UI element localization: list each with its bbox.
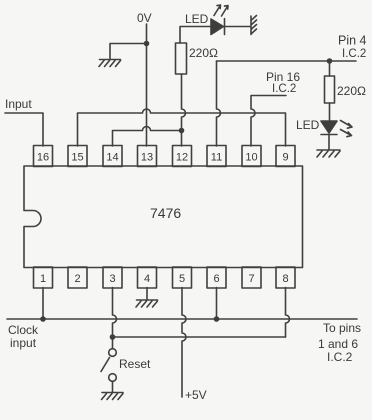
- svg-text:I.C.2: I.C.2: [342, 48, 366, 60]
- switch S1 reset: [101, 349, 116, 382]
- label Reset: [119, 357, 151, 371]
- svg-text:4: 4: [144, 273, 150, 285]
- pin 3: [103, 267, 122, 288]
- svg-text:input: input: [10, 336, 37, 350]
- svg-text:Pin 16: Pin 16: [266, 70, 300, 84]
- pin 16: [34, 146, 53, 167]
- pin 15: [68, 146, 87, 167]
- wire pin 5 to +5V: [182, 288, 186, 398]
- pin 4: [138, 267, 157, 288]
- wire input to pin 16: [5, 113, 43, 146]
- node reset junction: [110, 334, 116, 340]
- svg-text:2: 2: [74, 273, 80, 285]
- label To pins 1 and 6 I.C.2: [318, 321, 361, 364]
- svg-text:11: 11: [211, 152, 222, 164]
- wire pin4 IC2 rail: [217, 60, 357, 62]
- wire pin16 IC2 to pin 10: [251, 96, 286, 147]
- label +5V: [185, 388, 207, 402]
- node pin4 rail junction: [327, 58, 333, 64]
- node pin6 clock junction: [214, 316, 220, 322]
- svg-text:6: 6: [213, 273, 219, 285]
- wire bus D reset to pin 8: [113, 336, 286, 338]
- svg-text:5: 5: [179, 273, 185, 285]
- label Pin 4 I.C.2: [338, 34, 367, 61]
- svg-text:Pin 4: Pin 4: [338, 34, 367, 48]
- LED D2: [321, 121, 337, 135]
- pin 1: [34, 267, 53, 288]
- svg-text:0V: 0V: [137, 11, 152, 25]
- svg-text:Clock: Clock: [8, 323, 39, 337]
- svg-text:220Ω: 220Ω: [337, 84, 366, 98]
- wire junction to R2: [329, 61, 331, 76]
- wire R2 to LED D2: [329, 103, 331, 121]
- label Clock input: [8, 323, 39, 350]
- pin 13: [138, 146, 157, 167]
- label R1 value 220 ohm: [189, 46, 218, 60]
- wire switch to ground: [112, 381, 114, 392]
- ground G4: [136, 300, 158, 307]
- wire D2 cathode to ground: [328, 135, 330, 150]
- svg-text:7476: 7476: [150, 205, 181, 221]
- wire bus B pin 14 to pin 12: [113, 127, 182, 147]
- resistor R2 220 ohm: [325, 76, 335, 103]
- svg-text:8: 8: [282, 273, 288, 285]
- wire 0V vertical to pin 13: [146, 24, 148, 146]
- wire pin 4 to ground: [146, 288, 148, 300]
- label U1 value 7476: [150, 205, 181, 221]
- node pin1 clock junction: [40, 316, 46, 322]
- node 0V junction: [144, 41, 150, 47]
- IC U1 body 7476: [24, 166, 303, 268]
- svg-text:Input: Input: [5, 97, 32, 111]
- pin 7: [242, 267, 261, 288]
- svg-text:14: 14: [106, 152, 118, 164]
- svg-text:220Ω: 220Ω: [189, 46, 218, 60]
- svg-text:15: 15: [71, 152, 83, 164]
- LED D1 light arrows: [214, 5, 228, 16]
- svg-text:LED: LED: [185, 12, 209, 26]
- svg-text:1: 1: [40, 273, 46, 285]
- label LED D1: [185, 12, 209, 26]
- wire 0V to ground: [110, 44, 147, 59]
- svg-text:16: 16: [37, 152, 49, 164]
- pin 5: [173, 267, 192, 288]
- svg-text:10: 10: [245, 152, 257, 164]
- pin 12: [173, 146, 192, 167]
- svg-text:Reset: Reset: [119, 357, 151, 371]
- label Pin 16 I.C.2: [266, 70, 300, 95]
- svg-text:1 and 6: 1 and 6: [318, 337, 358, 351]
- pin 2: [68, 267, 87, 288]
- wire clock bus C: [7, 318, 357, 320]
- wire R1 bottom to pin 12: [182, 74, 186, 146]
- svg-text:I.C.2: I.C.2: [272, 83, 296, 95]
- label 0V: [137, 11, 152, 25]
- wire rail down to pin 11: [217, 61, 221, 146]
- label LED D2: [296, 118, 320, 132]
- pin 9: [276, 146, 295, 167]
- pin 8: [276, 267, 295, 288]
- svg-text:13: 13: [141, 152, 153, 164]
- svg-text:LED: LED: [296, 118, 320, 132]
- node bus B junction: [179, 128, 185, 134]
- pin 6: [207, 267, 226, 288]
- svg-text:+5V: +5V: [185, 388, 207, 402]
- wire pin 1 to bus C: [42, 288, 44, 320]
- pin 14: [103, 146, 122, 167]
- pin 10: [242, 146, 261, 167]
- wire pin 6 to bus C: [216, 288, 218, 320]
- resistor R1 220 ohm: [176, 43, 187, 74]
- wire R1 top to LED D1 anode: [180, 27, 211, 44]
- ground G5: [102, 393, 124, 400]
- LED D1: [211, 19, 225, 35]
- LED D2 light arrows: [341, 121, 353, 137]
- wire D1 cathode to chassis: [225, 26, 251, 28]
- chassis ground G2: [251, 16, 257, 35]
- svg-text:7: 7: [248, 273, 254, 285]
- wire bus A pin 15 to pin 9: [78, 109, 286, 146]
- ground G3: [317, 150, 340, 157]
- svg-text:To pins: To pins: [323, 321, 361, 335]
- svg-text:3: 3: [109, 273, 115, 285]
- ground G1: [99, 60, 121, 67]
- label R2 value 220 ohm: [337, 84, 366, 98]
- label Input: [5, 97, 32, 111]
- wire pin 3 to reset switch: [113, 288, 117, 349]
- pin 11: [207, 146, 226, 167]
- svg-text:9: 9: [282, 152, 288, 164]
- wire pin 8 to bus D: [286, 288, 290, 338]
- svg-text:12: 12: [176, 152, 188, 164]
- svg-text:I.C.2: I.C.2: [327, 350, 353, 364]
